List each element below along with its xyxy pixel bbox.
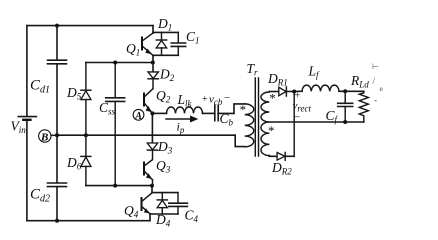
node B [39, 130, 51, 142]
wire Lf to RLd [339, 90, 364, 92]
diode D6 [85, 135, 87, 156]
inductor Lf [302, 85, 339, 91]
transistor Q1 [141, 37, 143, 51]
node junction bottom of divider [55, 219, 59, 223]
node A [133, 109, 144, 120]
transformer Tr primary winding [245, 104, 254, 147]
source V_in battery [18, 116, 36, 118]
wire Q1 collector [152, 26, 154, 34]
wire D4 C4 top [152, 192, 178, 194]
stray print marks right edge [372, 62, 384, 105]
svg-text:−: − [224, 92, 230, 104]
wire node A to Llk [152, 112, 166, 114]
wire DR2 to vrect link [285, 155, 294, 157]
wire D1 C1 bottom [153, 54, 178, 56]
wire Q3 emitter to net4 [152, 180, 154, 186]
wire node A down to D3 [151, 113, 153, 143]
svg-text:⊢: ⊢ [372, 62, 379, 71]
svg-text:*: * [269, 91, 276, 106]
wire D1 C1 top [153, 31, 178, 33]
diode D1 [161, 32, 163, 40]
svg-text:+: + [202, 94, 208, 105]
svg-text:*: * [268, 123, 275, 138]
diode D3 [147, 143, 157, 150]
wire net1 (Q1 emitter bus) [86, 62, 153, 64]
diode DR2 [277, 153, 285, 161]
node junction top of divider [55, 24, 59, 28]
inductor Llk [167, 107, 203, 113]
wire left source branch lower [26, 121, 28, 221]
diode D2 [148, 72, 158, 79]
wire secondary bottom to DR2 [269, 155, 277, 158]
wire D4 C4 bottom [150, 213, 178, 215]
wire DR1 to Lf [286, 90, 302, 92]
wire net4 to Q4 collector [151, 186, 153, 193]
wire divider rail upper [56, 26, 58, 60]
wire vrect link [293, 92, 295, 157]
diode D4 [161, 193, 163, 200]
svg-text:*: * [240, 102, 247, 117]
wire B rail to primary bottom [235, 135, 245, 146]
wire left source branch upper [26, 26, 28, 116]
wire divider rail lower [56, 187, 58, 221]
diode DR1 [279, 87, 286, 95]
capacitor Css branch lower [114, 101, 116, 185]
wire bottom rail [27, 220, 150, 222]
svg-text:-: - [374, 95, 377, 105]
transistor Q3 [143, 162, 145, 176]
transistor Q2 [143, 93, 145, 107]
wire output return rail [269, 121, 364, 123]
resistor RLd [359, 91, 368, 122]
transformer secondary winding [261, 92, 269, 156]
capacitor Cf [344, 91, 346, 103]
capacitor Cd1 [48, 60, 67, 64]
current arrow ip [166, 118, 191, 120]
wire net4 (Q3 emitter bus) [86, 185, 152, 187]
svg-text:B: B [40, 132, 48, 144]
wire Cb to primary top [218, 104, 245, 114]
transistor Q4 [141, 197, 143, 211]
wire Llk to Cb [203, 112, 215, 114]
diode D5 [85, 63, 87, 91]
wire secondary top to DR1 [269, 91, 279, 93]
wire top rail [27, 25, 153, 27]
capacitor Css branch upper [114, 63, 116, 98]
capacitor C4 [177, 193, 179, 203]
svg-text:A: A [134, 111, 142, 122]
wire node B stub [51, 134, 57, 136]
wire Q1 emitter to net1 [152, 55, 154, 72]
capacitor C1 [177, 32, 179, 42]
wire Q4 emitter to bottom rail [149, 214, 151, 221]
capacitor Css [106, 98, 125, 102]
wire mid rail B to transformer [57, 134, 235, 136]
capacitor Cb [215, 106, 218, 121]
wire divider rail middle [56, 64, 58, 183]
transformer core [255, 78, 258, 156]
capacitor Cd2 [48, 183, 67, 187]
